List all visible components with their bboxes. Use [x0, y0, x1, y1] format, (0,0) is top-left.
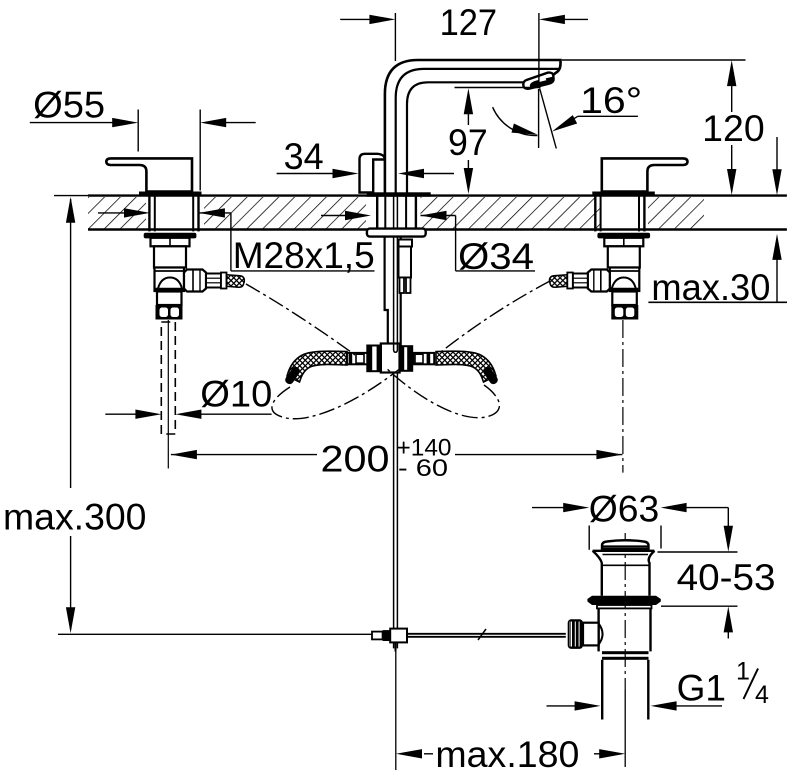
svg-text:120: 120 [702, 108, 765, 149]
svg-text:97: 97 [448, 122, 488, 163]
svg-text:- 60: - 60 [398, 455, 448, 482]
svg-text:max.300: max.300 [3, 496, 147, 537]
svg-text:Ø55: Ø55 [33, 85, 105, 126]
svg-text:Ø10: Ø10 [200, 374, 272, 415]
svg-text:1: 1 [736, 658, 750, 686]
svg-text:max.30: max.30 [651, 267, 770, 308]
svg-text:4: 4 [755, 681, 769, 709]
svg-text:200: 200 [321, 439, 390, 480]
svg-text:M28x1,5: M28x1,5 [233, 235, 375, 276]
svg-text:Ø34: Ø34 [458, 236, 534, 277]
svg-text:40-53: 40-53 [677, 557, 776, 598]
svg-text:G1: G1 [677, 668, 726, 709]
svg-text:16°: 16° [580, 80, 642, 121]
svg-text:34: 34 [284, 136, 324, 177]
svg-text:Ø63: Ø63 [589, 488, 660, 529]
svg-text:max.180: max.180 [435, 734, 579, 775]
svg-text:127: 127 [440, 2, 498, 43]
